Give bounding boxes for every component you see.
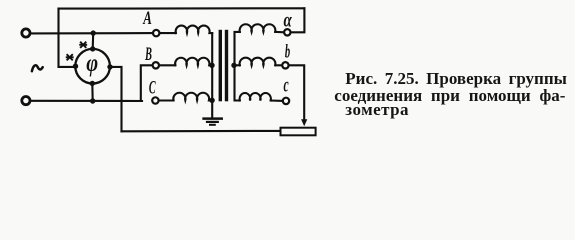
- node: meter bottom terminal dot: [90, 81, 95, 86]
- wire: upper source terminal to primary terminal A: [30, 32, 153, 34]
- label C: [149, 77, 156, 98]
- svg-text:B: B: [144, 44, 152, 65]
- inductor: secondary winding b: [240, 58, 276, 66]
- wire: winding a to terminal a: [275, 31, 284, 33]
- caption line 1: [345, 70, 567, 87]
- label A: [142, 8, 152, 29]
- inductor: secondary winding c: [240, 93, 271, 100]
- resistor: potentiometer: [281, 128, 316, 136]
- terminal A: [153, 30, 159, 36]
- wire: secondary star bus: [235, 32, 240, 101]
- caption line 2: [334, 87, 565, 104]
- terminal B: [153, 62, 159, 68]
- svg-text:α: α: [284, 8, 293, 31]
- node: meter top terminal dot: [90, 46, 95, 51]
- label a: [284, 8, 293, 31]
- inductor: primary winding B: [175, 58, 212, 66]
- polarity mark * (top coil): [80, 42, 86, 47]
- wire: terminal b to potentiometer slider: [289, 65, 304, 119]
- terminal b: [282, 62, 288, 68]
- wire: meter left lead up the left side: [59, 9, 76, 67]
- terminal: lower AC source terminal: [22, 97, 30, 105]
- svg-text:C: C: [149, 77, 156, 98]
- label b: [285, 41, 291, 62]
- node: meter right terminal dot: [107, 64, 112, 69]
- inductor: secondary winding a: [240, 24, 276, 32]
- meter: phase meter (фазометр) with φ symbol: [75, 49, 110, 84]
- wire: meter top lead: [92, 33, 95, 49]
- wire: meter bottom lead: [91, 83, 93, 101]
- svg-text:A: A: [142, 8, 152, 29]
- wire: primary neutral riser: [211, 33, 213, 117]
- wire: winding b to terminal b: [275, 64, 282, 66]
- inductor: primary winding C: [173, 93, 212, 101]
- node: junction of meter bottom lead with lower source wire: [90, 98, 95, 103]
- wire: star bus stub to winding b: [235, 64, 240, 66]
- svg-text:b: b: [285, 41, 291, 62]
- wire: bottom bus to potentiometer: [122, 130, 281, 133]
- terminal: upper AC source terminal: [22, 29, 30, 37]
- node: junction winding C with neutral: [209, 98, 214, 103]
- caption line 3: [345, 101, 409, 118]
- node: junction star bus / winding b: [231, 63, 236, 68]
- terminal a: [284, 29, 290, 35]
- wire: terminal B to winding B: [159, 64, 175, 66]
- wire: top bus: [59, 7, 305, 9]
- wire: lower source terminal to B branch point: [30, 100, 142, 102]
- polarity mark * (left coil): [67, 55, 73, 60]
- node: junction winding B with neutral: [209, 63, 214, 68]
- AC source symbol ~: [32, 65, 43, 71]
- svg-text:c: c: [284, 73, 290, 96]
- label B: [144, 44, 152, 65]
- arrow: potentiometer slider: [301, 119, 307, 126]
- ground: [204, 119, 222, 125]
- wire: winding c to terminal c: [271, 99, 283, 102]
- wire: terminal A to winding A: [160, 32, 176, 34]
- node: meter left terminal dot: [73, 63, 78, 68]
- wire: terminal C to winding C: [159, 99, 174, 101]
- svg-text:φ: φ: [86, 49, 98, 78]
- node: junction of meter top lead with wire A: [91, 30, 96, 35]
- wire: meter right lead down to bottom bus: [110, 67, 122, 131]
- wire: branch from lower source wire up to terminal B: [141, 65, 153, 101]
- terminal c: [283, 98, 289, 104]
- transformer core (two bars): [219, 30, 229, 102]
- label c: [284, 73, 290, 96]
- inductor: primary winding A: [176, 26, 213, 34]
- wire: drop from top bus to secondary terminal a: [292, 8, 305, 32]
- terminal C: [152, 97, 158, 103]
